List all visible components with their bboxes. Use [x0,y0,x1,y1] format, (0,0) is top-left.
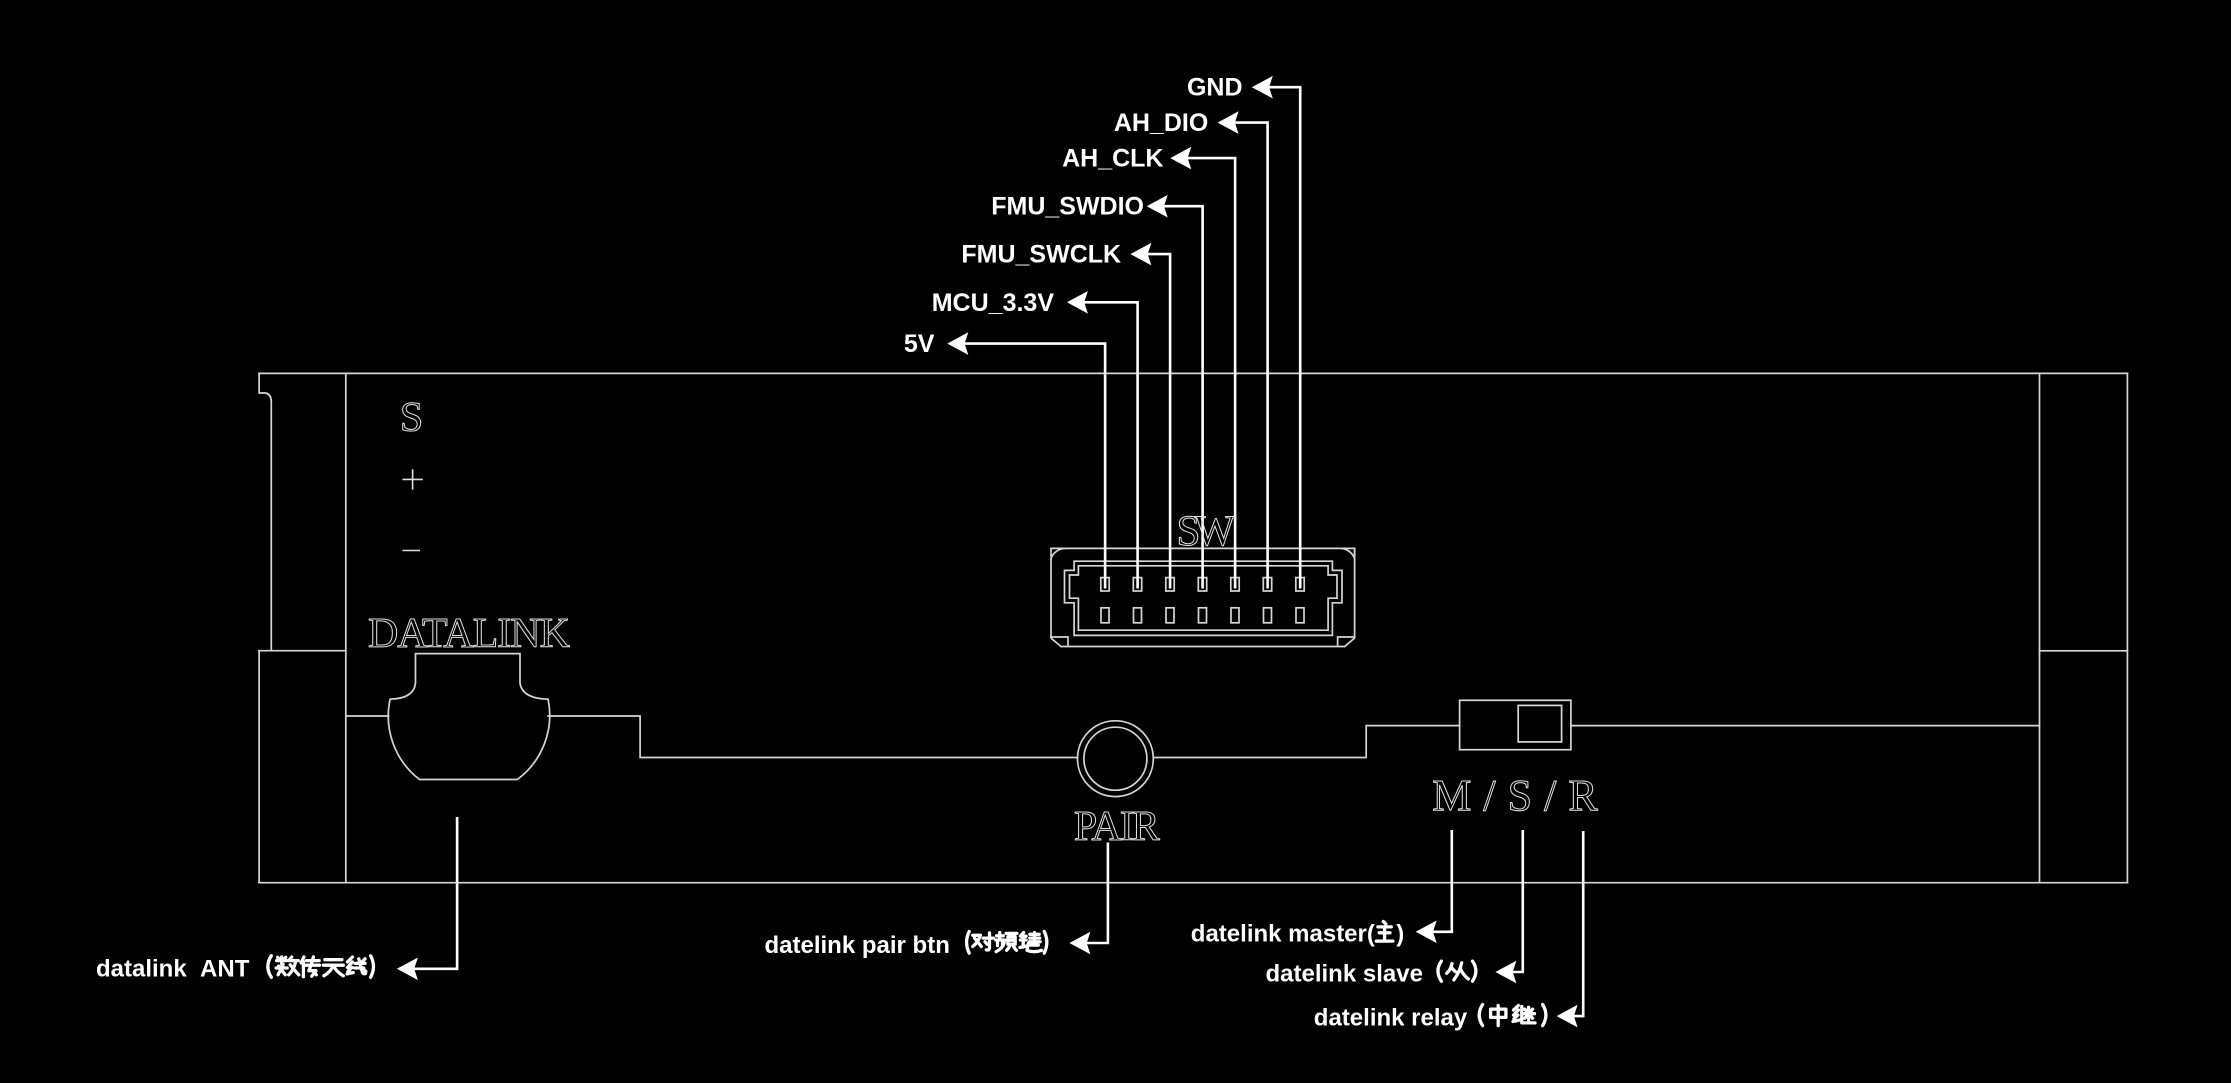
svg-text:DATALINK: DATALINK [368,611,570,657]
svg-text:FMU_SWDIO: FMU_SWDIO [991,193,1144,221]
svg-text:): ) [1396,921,1404,948]
svg-text:FMU_SWCLK: FMU_SWCLK [961,241,1121,269]
svg-text:GND: GND [1187,74,1243,102]
svg-text:AH_DIO: AH_DIO [1114,109,1208,137]
svg-text:MCU_3.3V: MCU_3.3V [932,289,1055,317]
svg-text:datelink pair btn: datelink pair btn [765,932,950,959]
svg-text:datelink relay: datelink relay [1314,1004,1468,1031]
svg-text:SW: SW [1177,508,1236,555]
svg-text:datelink slave: datelink slave [1266,960,1423,987]
svg-text:datelink master(: datelink master( [1191,921,1375,948]
svg-text:5V: 5V [904,330,935,358]
svg-text:AH_CLK: AH_CLK [1062,145,1163,173]
svg-text:M / S / R: M / S / R [1432,771,1598,820]
svg-text:S: S [400,395,423,441]
svg-text:datalink ANT: datalink ANT [96,955,250,982]
svg-text:PAIR: PAIR [1074,804,1160,850]
